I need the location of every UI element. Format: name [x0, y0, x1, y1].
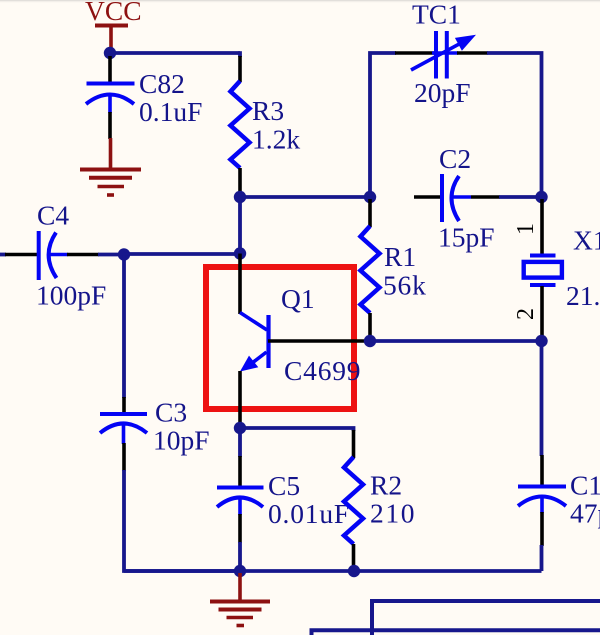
pin X1 pin 2	[513, 286, 542, 340]
pin C4 pin 1	[5, 253, 37, 257]
wire emitter to R2	[240, 428, 354, 431]
node collector junction	[234, 247, 246, 259]
svg-text:C4699: C4699	[284, 355, 361, 386]
pin Q1 collector	[238, 254, 242, 315]
pin C82 pin 1	[108, 56, 112, 83]
wire C5 to bottom rail	[238, 542, 242, 571]
node R2 bottom junction	[348, 565, 360, 577]
pin C82 pin 2	[108, 112, 112, 139]
highlight box around Q1	[206, 267, 354, 409]
pin X1 pin 1	[513, 199, 542, 255]
wire emitter down to C5	[238, 428, 242, 457]
svg-text:20pF: 20pF	[414, 77, 471, 108]
svg-text:R2: R2	[370, 470, 402, 501]
wire TC1 right riser	[487, 53, 542, 197]
node ground junction	[234, 565, 246, 577]
svg-text:C4: C4	[37, 200, 69, 231]
wire R3 top corner	[238, 51, 242, 57]
pin C3 pin 2	[122, 443, 126, 471]
svg-text:0.1uF: 0.1uF	[139, 96, 202, 127]
pin C1 pin 1	[540, 455, 544, 485]
wire C4 to collector column	[124, 252, 240, 256]
node crystal bottom junction	[535, 335, 547, 347]
svg-text:TC1: TC1	[412, 0, 461, 30]
svg-text:Q1: Q1	[281, 283, 315, 314]
node base junction	[364, 335, 376, 347]
ground bottom	[210, 573, 270, 626]
pin C2 pin 2	[471, 195, 500, 199]
svg-text:21.4M: 21.4M	[566, 280, 600, 311]
pin C5 pin 2	[238, 514, 242, 543]
pin R3 pin 1	[238, 56, 242, 82]
svg-text:47pF: 47pF	[570, 498, 600, 529]
node C4 junction	[118, 248, 130, 260]
svg-text:100pF: 100pF	[36, 280, 106, 311]
ground under C82	[80, 138, 141, 195]
pin C3 pin 1	[122, 397, 126, 412]
svg-text:R1: R1	[384, 241, 416, 272]
wire bottom rail	[124, 569, 542, 573]
svg-text:1: 1	[513, 223, 539, 235]
svg-text:X1: X1	[573, 225, 600, 256]
node VCC junction	[104, 47, 116, 59]
pin C2 pin 1	[414, 195, 440, 199]
pin R2 pin 1	[352, 430, 356, 458]
node emitter junction	[234, 422, 246, 434]
pin R1 pin 1	[368, 199, 372, 227]
pin Q1 base	[268, 339, 370, 343]
pin TC1 pin 1	[395, 51, 434, 55]
resistor R1	[361, 226, 427, 313]
wire VCC rail	[110, 51, 240, 55]
wire down to collector junction	[238, 197, 242, 254]
svg-text:10pF: 10pF	[153, 425, 210, 456]
svg-text:C2: C2	[439, 143, 471, 174]
resistor R3	[231, 81, 301, 168]
wire left edge stub	[0, 253, 6, 257]
svg-text:C3: C3	[155, 397, 187, 428]
crystal X1	[524, 225, 600, 312]
svg-text:15pF: 15pF	[438, 222, 495, 253]
wire mid rail	[240, 195, 370, 199]
capacitor C4	[36, 200, 106, 311]
capacitor C10	[518, 470, 600, 529]
pin R3 pin 2	[238, 168, 242, 197]
pin C5 pin 1	[238, 456, 242, 486]
wire C4 junction down	[122, 255, 126, 399]
sheet border outer	[312, 630, 600, 635]
wire C2 to crystal column	[499, 195, 542, 199]
pin C1 pin 2	[540, 512, 544, 546]
svg-text:C82: C82	[139, 68, 185, 99]
node R3 bottom junction	[234, 191, 246, 203]
svg-text:C5: C5	[268, 470, 300, 501]
svg-text:R3: R3	[252, 95, 284, 126]
pin Q1 emitter	[238, 371, 242, 428]
capacitor C82	[86, 68, 202, 127]
svg-text:C10: C10	[570, 470, 600, 501]
transistor Q1	[240, 283, 361, 386]
svg-text:1.2k: 1.2k	[252, 124, 300, 155]
pin R2 pin 2	[352, 544, 356, 571]
capacitor C3	[100, 397, 210, 456]
power symbol VCC	[85, 0, 142, 49]
resistor R2	[344, 457, 416, 544]
svg-text:VCC: VCC	[85, 0, 142, 26]
wire C1 to bottom rail	[540, 545, 544, 571]
svg-text:0.01uF: 0.01uF	[268, 498, 350, 529]
node C2 right junction	[535, 191, 547, 203]
capacitor C2	[438, 143, 495, 253]
pin R1 pin 2	[368, 313, 372, 341]
pin C4 pin 2	[67, 253, 99, 257]
node TC1 left junction	[364, 191, 376, 203]
sheet border inner	[372, 601, 600, 635]
svg-text:210: 210	[370, 498, 416, 529]
svg-text:2: 2	[513, 308, 539, 320]
pin TC1 pin 2	[457, 51, 488, 55]
capacitor TC1 trimmer	[411, 0, 476, 108]
wire base rail to crystal	[370, 339, 542, 343]
wire TC1 left riser	[370, 53, 396, 197]
capacitor C5	[217, 470, 350, 529]
wire C3 to bottom rail	[124, 470, 240, 571]
svg-text:56k: 56k	[383, 270, 427, 301]
wire crystal junction down to C1	[540, 341, 544, 456]
